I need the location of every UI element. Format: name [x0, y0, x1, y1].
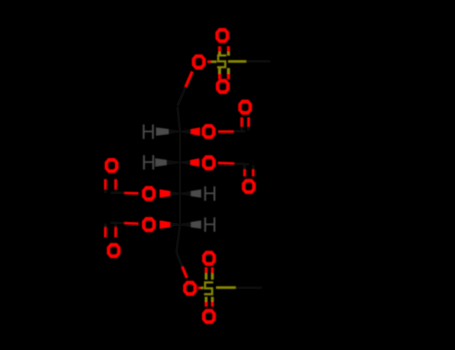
wire C5-C6 backbone bond — [176, 225, 180, 253]
atom O1 (top mesylate S=O upper oxygen) — [215, 28, 229, 43]
bond S2=O13 double bond — [206, 297, 212, 307]
atom O9 (carbonyl oxygen of formyl 2) — [242, 179, 256, 194]
atom H2 (hydrogen on C3) — [143, 155, 154, 169]
wire C4-C5 backbone bond — [179, 194, 181, 225]
atom O4 (ester oxygen on C2) — [202, 124, 216, 139]
bond C10=O11 double bond — [105, 223, 115, 237]
wedge C3-O5 (bold wedge to ester oxygen) — [180, 158, 199, 167]
atom O13 (bottom mesylate S=O lower oxygen) — [202, 309, 216, 324]
bond C7=O8 double bond — [242, 117, 249, 130]
bond C9=O10 double bond — [105, 179, 115, 193]
bond C6-O12 ester linkage — [176, 252, 187, 278]
wedge C2-O4 (bold wedge to ester oxygen) — [180, 127, 200, 136]
atom O3 (top mesylate S=O lower oxygen) — [216, 79, 230, 94]
bond O6-C9 (to formyl carbon 3) — [111, 192, 139, 195]
atom O14 (bottom mesylate S=O upper oxygen) — [202, 251, 216, 266]
wire C3-C4 backbone bond — [179, 163, 181, 194]
wire C1-C2 backbone bond — [178, 107, 181, 132]
bond O5-C8 (to formyl carbon 2) — [218, 163, 249, 164]
atom S1 (top mesylate sulfur) — [217, 54, 226, 68]
bond O2-C1 ester linkage — [178, 72, 193, 107]
atom O8 (carbonyl oxygen of formyl 1) — [238, 100, 252, 115]
bond O4-C7 (to formyl carbon 1) — [218, 130, 245, 133]
atom O6 (ester oxygen on C4) — [142, 186, 156, 201]
bond O12-S2 — [198, 287, 204, 290]
bond O2-S1 — [207, 60, 216, 63]
atom O12 (bottom mesylate ester oxygen) — [183, 281, 197, 296]
atom H4 (hydrogen on C5) — [204, 217, 215, 231]
wedge C3-H2 (bold wedge to hydrogen) — [155, 158, 180, 166]
bond S1-CH3 methyl — [228, 60, 270, 63]
wedge C4-H3 (bold wedge to hydrogen) — [180, 189, 201, 197]
atom O11 (carbonyl oxygen of formyl 4) — [107, 243, 121, 258]
atom H1 (hydrogen on C2) — [143, 125, 154, 139]
wedge C2-H1 (bold wedge to hydrogen) — [156, 127, 180, 135]
atom O7 (ester oxygen on C5) — [142, 217, 156, 232]
wedge C5-O7 (bold wedge to ester oxygen) — [160, 220, 180, 229]
bond S2-CH3 methyl — [216, 286, 262, 289]
wedge C4-O6 (bold wedge to ester oxygen) — [160, 189, 180, 198]
bond O7-C10 (to formyl carbon 4) — [111, 222, 139, 225]
bond S2=O14 double bond — [206, 267, 212, 279]
bond S1=O1 double bond — [220, 46, 229, 56]
wire C2-C3 backbone bond — [179, 132, 181, 163]
wedge C5-H4 (bold wedge to hydrogen) — [180, 220, 201, 228]
atom O10 (carbonyl oxygen of formyl 3) — [105, 158, 119, 173]
atom S2 (bottom mesylate sulfur) — [204, 281, 213, 295]
atom H3 (hydrogen on C4) — [204, 186, 215, 200]
bond C8=O9 double bond — [245, 165, 254, 176]
atom O5 (ester oxygen on C3) — [202, 155, 216, 170]
bond S1=O3 double bond — [220, 68, 229, 79]
atom O2 (top mesylate ester oxygen) — [192, 54, 206, 69]
